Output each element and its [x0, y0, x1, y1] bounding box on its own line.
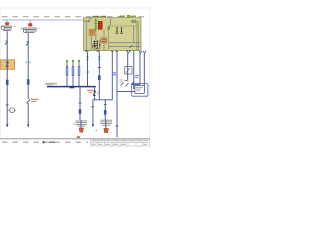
pv stack M1 bars [1, 25, 12, 28]
fuse FC body [78, 63, 80, 65]
inner wire row 2 [109, 46, 141, 48]
bus junction blob [70, 86, 75, 88]
fuse bank green top 1 [66, 60, 68, 63]
V switch S3 under block [143, 51, 146, 54]
gray text right of K2 [97, 91, 100, 93]
wire riser R2 [116, 52, 118, 138]
label box text [136, 86, 143, 88]
frame top line [0, 7, 150, 9]
green label text 3 [120, 15, 126, 17]
red label near Q2 [31, 98, 39, 100]
wire V2 [133, 51, 135, 89]
orange part X1 [89, 29, 95, 35]
MB1 wire through [80, 120, 82, 128]
relay contact b [121, 27, 122, 28]
switch on W1 [5, 41, 7, 45]
MB1 red label [77, 136, 80, 138]
block bottom terminal stubs [85, 50, 89, 52]
fuse on D3 [79, 109, 82, 114]
arrow symbol in block [84, 20, 88, 22]
W1 end arrow [6, 124, 9, 127]
MB1 trapezoid [79, 128, 84, 132]
drop wire D3 [79, 88, 81, 121]
MB2 left label [95, 130, 97, 132]
green label text 1 [93, 15, 100, 17]
drop wire D2 [104, 100, 106, 120]
bus left labels [45, 83, 57, 85]
pv stack M1 red top [5, 22, 9, 25]
interruption arrows WB [98, 56, 100, 58]
orange terminal box [1, 60, 15, 70]
main bus N1 [47, 86, 96, 88]
cluster blue text [135, 75, 139, 77]
MB2 wire through [105, 119, 107, 128]
device box B1 [125, 66, 132, 74]
wire W1 mid [6, 60, 8, 80]
V3 elbow [132, 84, 140, 86]
red component K1 [98, 21, 102, 29]
frame right border [148, 8, 150, 139]
green label text 4 [132, 15, 136, 17]
switch Q2 on W2 [27, 97, 29, 99]
motor stack MB1 bars [76, 120, 88, 123]
fuse FB body [72, 63, 74, 65]
fuse FA body [66, 63, 68, 65]
tick on R2 [116, 125, 119, 127]
inner label box [135, 86, 144, 94]
motor stack MB2 bars [100, 119, 112, 122]
link wire to R2 [117, 90, 135, 92]
red mark near border [77, 137, 79, 138]
wire WB from block [98, 52, 100, 100]
riser labels [113, 72, 116, 74]
inner wire row 1 [109, 42, 141, 44]
orange part X2 [101, 38, 107, 43]
wire W1 upper [6, 31, 8, 60]
fuse on D2 [104, 110, 107, 115]
W2 end arrow [27, 124, 30, 127]
W2 label 2 [26, 61, 27, 63]
green tap line [95, 18, 97, 32]
title block table [91, 139, 150, 146]
green chip label [127, 15, 131, 18]
bottom drawing border [0, 138, 150, 140]
green contact symbol [108, 25, 110, 27]
pv stack M2 left arrow [21, 28, 23, 30]
contact K2 under bus [94, 88, 96, 100]
title block text smudges [92, 141, 149, 144]
fuse FB2 on WB [98, 75, 101, 80]
frame left border [0, 8, 2, 139]
switch cluster [121, 81, 134, 87]
fuse F1 on W1 [6, 80, 9, 85]
green function block U1 [84, 18, 142, 51]
instrument circle P1 [7, 109, 10, 111]
pv stack M2 bars [23, 27, 37, 30]
gray note text [46, 82, 58, 84]
green label text 2 [101, 15, 106, 17]
dark symbol cluster [93, 41, 98, 43]
drop wire D1 [92, 100, 94, 125]
stem M1 to feeder [6, 20, 8, 23]
V switch S2 under block [139, 51, 142, 54]
cluster gray text [120, 79, 124, 81]
wire W2 lower [27, 104, 29, 125]
tick on W1 [6, 104, 9, 106]
tick on WB [98, 67, 101, 69]
relay contact a [116, 27, 117, 28]
cross link wire [93, 99, 112, 101]
pv stack M2 red star [28, 23, 32, 27]
V switch S1 under block [127, 51, 130, 54]
wire W1 lower [6, 85, 8, 124]
disconnect inside box [6, 61, 9, 63]
fuse F2 on W2 [27, 79, 30, 84]
wire V3 [139, 53, 141, 84]
wire WA from block [87, 52, 89, 86]
stem M2 to feeder [29, 20, 31, 23]
wire V4 [143, 53, 145, 91]
pv stack M2 circle [23, 29, 26, 32]
MB2 trapezoid [104, 128, 109, 132]
interruption arrows WA [86, 56, 88, 58]
green tick on WA [86, 71, 89, 73]
wire W2 upper [27, 33, 29, 97]
outer loop box [132, 84, 148, 97]
bottom ruler column labels [2, 141, 88, 143]
bottom ruler dark mark [43, 141, 45, 143]
fuse bank green top 2 [72, 60, 74, 63]
orange ref arrow [87, 89, 93, 91]
wire riser R1 [111, 52, 113, 100]
wire V1 [127, 53, 129, 80]
inner switch mark [130, 45, 133, 47]
feeder line L0 [2, 19, 84, 21]
top ruler column labels [2, 16, 148, 18]
block top-left tiny text [89, 18, 93, 20]
MB1 left arrow [73, 123, 75, 125]
block internal vertical wires [85, 23, 87, 51]
inner dashed box lines [109, 25, 139, 27]
fuse bank green top 3 [78, 60, 80, 63]
switch on W2 [26, 42, 29, 46]
pv stack M1 circle [1, 26, 4, 29]
stack labels [13, 26, 16, 28]
